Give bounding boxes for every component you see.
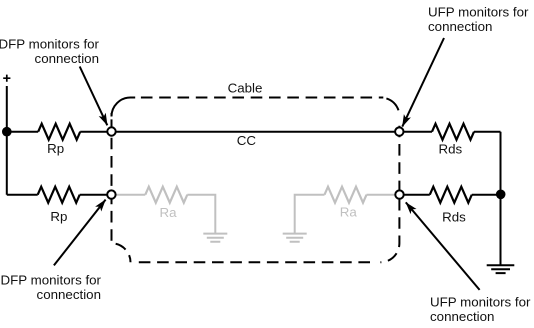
wire: gray, Ra left to its ground riser bbox=[187, 195, 215, 234]
resistor Ra (right, inactive gray) bbox=[325, 187, 367, 203]
node: DFP connection (bottom-left, open) bbox=[107, 190, 115, 198]
ground (right rail) bbox=[487, 265, 515, 273]
resistor Rds (bottom) bbox=[430, 187, 472, 203]
node: DFP CC connection (top-left, open) bbox=[107, 127, 115, 135]
wire: bottom-left row to Rp bbox=[7, 194, 38, 196]
svg-text:connection: connection bbox=[35, 51, 99, 66]
svg-text:Cable: Cable bbox=[228, 80, 263, 95]
wire: top Rds to right rail bbox=[474, 131, 501, 133]
svg-text:DFP monitors for: DFP monitors for bbox=[0, 36, 100, 51]
annotation arrow: DFP monitors (top-left) bbox=[80, 67, 108, 126]
wire: gray, right Ra ground riser bbox=[295, 195, 325, 234]
junction: right rail / bottom Rds bbox=[496, 190, 506, 200]
node: UFP CC connection (top-right, open) bbox=[395, 127, 403, 135]
svg-text:connection: connection bbox=[430, 309, 494, 324]
ground (left Ra, gray) bbox=[203, 234, 227, 242]
wire: top Rp to DFP CC node bbox=[80, 131, 111, 133]
wire: bottom Rp to DFP node bbox=[80, 194, 112, 196]
svg-text:Ra: Ra bbox=[159, 205, 177, 220]
svg-text:Rp: Rp bbox=[47, 141, 64, 156]
wire: bottom Rds to right rail bbox=[472, 194, 501, 196]
wire: top-left row to Rp bbox=[7, 131, 38, 133]
resistor Ra (left, inactive gray) bbox=[145, 187, 187, 203]
resistor Rp (top) bbox=[38, 124, 80, 140]
wire: UFP CC node to Rds bbox=[399, 131, 432, 133]
svg-text:CC: CC bbox=[237, 133, 257, 148]
node: UFP connection (bottom-right, open) bbox=[395, 190, 403, 198]
svg-text:UFP monitors for: UFP monitors for bbox=[430, 294, 531, 309]
wire: UFP node to bottom Rds bbox=[400, 194, 430, 196]
svg-text:connection: connection bbox=[428, 19, 492, 34]
svg-text:Rds: Rds bbox=[442, 209, 466, 224]
wire: gray, Ra right to UFP node bbox=[367, 194, 400, 196]
wire: CC line through cable bbox=[112, 131, 400, 133]
svg-text:Rp: Rp bbox=[50, 209, 67, 224]
wire: gray, DFP node to Ra (left) bbox=[111, 194, 145, 196]
voltage source positive terminal (+) bbox=[3, 75, 10, 82]
cable boundary (dashed rounded rectangle) bbox=[112, 98, 400, 263]
wire: left supply rail bbox=[6, 86, 8, 195]
junction: left rail / top Rp bbox=[2, 127, 12, 137]
svg-text:Rds: Rds bbox=[438, 142, 462, 157]
annotation arrow: DFP monitors (bottom-left) bbox=[54, 200, 106, 266]
wire: right rail down to ground bbox=[500, 132, 502, 266]
ground (right Ra, gray) bbox=[283, 234, 307, 242]
resistor Rds (top) bbox=[432, 124, 474, 140]
svg-text:connection: connection bbox=[37, 287, 101, 302]
annotation arrow: UFP monitors (bottom-right) bbox=[406, 202, 480, 290]
svg-text:Ra: Ra bbox=[340, 205, 358, 220]
svg-text:DFP monitors for: DFP monitors for bbox=[1, 272, 102, 287]
resistor Rp (bottom) bbox=[38, 187, 80, 203]
svg-text:UFP monitors for: UFP monitors for bbox=[428, 4, 529, 19]
annotation arrow: UFP monitors (top-right) bbox=[402, 38, 444, 127]
